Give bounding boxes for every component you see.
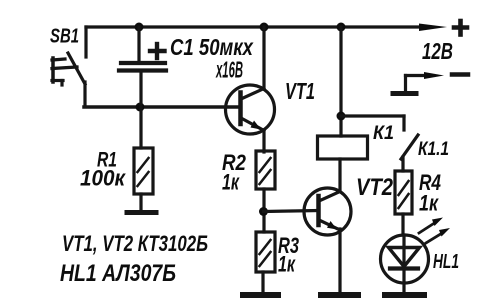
wire rail left drop to SB1 — [84, 27, 87, 57]
wire SB1 bottom terminal — [83, 82, 86, 106]
LED HL1 — [381, 235, 429, 291]
contact K1.1 — [401, 135, 418, 159]
wire top +12V rail — [86, 25, 430, 28]
LED emission arrows — [419, 218, 450, 244]
wire base node A (SB1/C1/R1 to VT1 base) — [84, 105, 240, 109]
svg-text:SB1: SB1 — [50, 26, 79, 48]
resistor R3 — [256, 232, 275, 292]
power - terminal — [393, 72, 468, 94]
wire arrow to + terminal — [419, 24, 447, 32]
svg-text:х16В: х16В — [215, 57, 243, 83]
ground R1 — [127, 210, 156, 215]
svg-text:К1.1: К1.1 — [418, 139, 449, 160]
transistor VT1 — [226, 85, 275, 134]
node K1 rail junction — [337, 23, 346, 32]
wire K1.1 to R4 — [401, 157, 404, 171]
transistor VT2 — [304, 188, 351, 235]
svg-text:1к: 1к — [419, 191, 439, 216]
node R2/R3/VT2 base junction — [259, 207, 268, 216]
wire branch to K1.1 — [341, 116, 404, 130]
svg-text:HL1: HL1 — [433, 251, 459, 273]
ground HL1 — [385, 292, 424, 298]
wire VT1 emitter to R2 — [262, 130, 265, 152]
node K1.1 branch junction — [337, 112, 346, 121]
svg-text:12В: 12В — [422, 38, 453, 64]
svg-text:1к: 1к — [222, 170, 240, 195]
svg-text:100к: 100к — [80, 166, 127, 191]
switch SB1 — [52, 53, 85, 85]
svg-text:VT2: VT2 — [356, 174, 394, 201]
wire VT2 collector to K1 — [338, 159, 341, 192]
node C1/R1 junction — [136, 103, 145, 112]
resistor R4 — [395, 171, 412, 235]
ground VT2 — [321, 292, 358, 298]
ground R3 — [243, 292, 278, 298]
svg-text:VT1: VT1 — [285, 78, 315, 104]
wire to VT2 base — [264, 211, 319, 212]
node C1 top junction — [135, 23, 144, 32]
resistor R1 — [134, 107, 153, 210]
wire VT2 emitter to ground — [338, 229, 341, 292]
power + symbol — [454, 21, 467, 35]
svg-text:1к: 1к — [278, 252, 296, 277]
node VT1 collector junction — [260, 23, 269, 32]
wire VT1 collector — [262, 27, 265, 89]
svg-text:HL1 АЛ307Б: HL1 АЛ307Б — [60, 260, 176, 287]
svg-text:VT1, VT2 КТ3102Б: VT1, VT2 КТ3102Б — [62, 231, 208, 256]
capacitor C1 — [119, 27, 166, 105]
relay coil K1 — [318, 27, 368, 159]
svg-text:К1: К1 — [373, 123, 394, 144]
resistor R2 — [256, 151, 275, 232]
